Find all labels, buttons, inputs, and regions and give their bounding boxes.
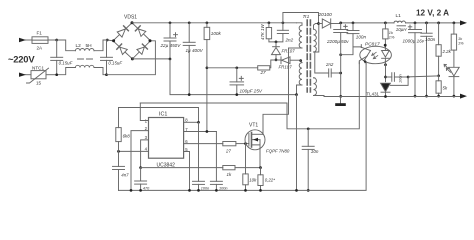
svg-text:12 V, 2 A: 12 V, 2 A xyxy=(416,8,449,17)
node 100n cs ground xyxy=(215,189,218,192)
svg-text:0.15uF: 0.15uF xyxy=(59,60,73,65)
node 100n post top xyxy=(425,22,428,25)
capacitor 100uF 25V xyxy=(230,68,244,95)
svg-text:1k: 1k xyxy=(227,172,232,177)
wire drain to primary xyxy=(263,48,289,134)
wire L2 top link xyxy=(57,40,76,51)
capacitor 0.15uF right xyxy=(101,40,113,75)
capacitor 100n Vcc bypass xyxy=(210,132,222,191)
node divider ground xyxy=(437,95,440,98)
svg-text:100n: 100n xyxy=(425,37,436,42)
wire pin3 CS xyxy=(141,140,149,168)
svg-text:10k: 10k xyxy=(249,178,257,183)
svg-text:6k8: 6k8 xyxy=(123,134,131,139)
wire HV top rail xyxy=(132,22,297,24)
node 47K top xyxy=(268,21,271,24)
node clamp-aux xyxy=(275,59,278,62)
svg-text:47K 1W: 47K 1W xyxy=(260,24,265,40)
wire primary ground rail xyxy=(170,59,297,95)
svg-text:NTC1: NTC1 xyxy=(32,66,44,71)
svg-text:2n2: 2n2 xyxy=(325,62,334,67)
bridge diode lower-right xyxy=(137,44,148,54)
node junction bottom-left xyxy=(55,73,58,76)
wire LED cathode to TL431 xyxy=(384,64,386,82)
PC817 internal LED xyxy=(382,47,390,64)
wire TL431 ref xyxy=(391,76,439,86)
node junction top-left xyxy=(55,39,58,42)
bridge rectifier VDS1 xyxy=(113,23,151,59)
resistor 2.2k divider upper xyxy=(436,23,441,76)
wire pin1 COMP xyxy=(140,103,148,121)
PC817 internal phototransistor xyxy=(359,47,370,64)
node LED branch top xyxy=(453,22,456,25)
svg-text:IC1: IC1 xyxy=(159,111,167,117)
node aux ground xyxy=(295,93,298,96)
svg-text:1%: 1% xyxy=(458,40,464,45)
svg-text:2n2: 2n2 xyxy=(285,38,294,43)
node TL431 anode xyxy=(384,95,387,98)
svg-text:FQPF 7N80: FQPF 7N80 xyxy=(266,149,290,154)
node 10n ground xyxy=(307,189,310,192)
LED indicator xyxy=(444,64,459,96)
wire CS line xyxy=(141,167,223,169)
capacitor 100n opto speedup xyxy=(341,23,362,55)
node 100n vref ground xyxy=(197,189,200,192)
node 2200u top xyxy=(339,22,342,25)
bridge diode upper-left xyxy=(117,26,128,37)
capacitor 100n Vref bypass xyxy=(193,122,205,190)
resistor 1k 1% opto LED xyxy=(383,23,388,47)
svg-text:100n: 100n xyxy=(219,186,227,190)
node REF divider xyxy=(437,74,440,77)
wire secondary rail pre-L1 xyxy=(341,22,394,24)
capacitor 470 CS filter xyxy=(135,168,147,191)
resistor 27 aux feed xyxy=(258,60,273,70)
svg-text:TL431: TL431 xyxy=(367,91,380,96)
bridge diode lower-left xyxy=(117,44,128,55)
svg-text:2A: 2A xyxy=(37,46,44,51)
PC817 feedback wire to COMP xyxy=(140,62,359,129)
node pin4 xyxy=(117,150,120,153)
node pin5 ground xyxy=(188,189,191,192)
wire pin4 RT/CT xyxy=(119,150,149,152)
wire bottom to bridge AC right xyxy=(107,41,156,75)
node CS xyxy=(139,166,142,169)
capacitor 10n xyxy=(302,129,314,191)
svg-text:100n: 100n xyxy=(398,74,403,83)
wire secondary rail post-L1 xyxy=(406,22,462,24)
svg-text:FR107: FR107 xyxy=(279,64,293,69)
wire clamp node xyxy=(273,59,282,61)
output plus arrow xyxy=(460,20,467,25)
thermistor NTC1 15 xyxy=(27,68,57,83)
node 100n pre top xyxy=(352,22,355,25)
node 100uF top xyxy=(235,66,238,69)
wire aux top / primary link vertical xyxy=(299,59,302,62)
node snubber mid xyxy=(275,41,278,44)
wire pin2 VFB to ground xyxy=(131,131,149,191)
wire to bridge AC left xyxy=(107,39,113,42)
bridge diode upper-right xyxy=(135,26,145,37)
node 10k ground xyxy=(244,189,247,192)
transistor Q1 VT1 FQPF 7N80 xyxy=(245,130,265,150)
optocoupler PC817 xyxy=(360,46,392,63)
svg-text:2.2k: 2.2k xyxy=(442,49,452,54)
node 100n post ground xyxy=(425,95,428,98)
node divider top xyxy=(437,22,440,25)
capacitor 22u 450V xyxy=(164,23,178,59)
resistor 100k startup xyxy=(204,23,210,132)
PC817 light arrows xyxy=(372,52,378,58)
svg-text:100n: 100n xyxy=(201,186,209,190)
wire source to CS node xyxy=(259,150,261,168)
svg-text:10µH: 10µH xyxy=(396,27,407,32)
svg-text:1000µ 16v: 1000µ 16v xyxy=(403,39,425,44)
node 100k top xyxy=(206,21,209,24)
node 2n2 sec output xyxy=(339,72,342,75)
capacitor 100n output xyxy=(421,23,432,96)
bridge vertex junctions xyxy=(112,21,151,60)
inductor L1 10uH xyxy=(394,21,406,26)
wire pin8 Vref xyxy=(184,121,199,123)
L2 core dashes xyxy=(78,58,93,60)
svg-text:VT1: VT1 xyxy=(249,123,258,129)
node primary gnd bottom xyxy=(295,189,298,192)
wire clamp top loop xyxy=(283,13,319,24)
diode 20100 output rectifier xyxy=(319,19,341,28)
wire Vcc node xyxy=(207,67,258,69)
wire pin7 Vcc xyxy=(184,131,217,133)
resistor 1k 1% LED indicator xyxy=(451,23,456,67)
node 1u ground xyxy=(188,93,191,96)
fuse F1 2A xyxy=(32,37,57,44)
node junction cap2 bottom xyxy=(105,73,108,76)
svg-text:L1: L1 xyxy=(396,13,402,19)
node 100n to 2200u xyxy=(339,53,342,56)
node 0.22 ground xyxy=(259,189,262,192)
svg-text:4n7: 4n7 xyxy=(121,172,129,177)
capacitor 2n2 xyxy=(276,23,289,42)
svg-text:100µF 25V: 100µF 25V xyxy=(240,89,263,94)
wire primary ground to bottom rail xyxy=(296,95,298,191)
wire secondary ground line xyxy=(324,96,461,98)
inductor L2 bottom winding xyxy=(57,65,107,74)
capacitor 2n2 secondary snubber xyxy=(315,52,341,77)
node junction cap2 top xyxy=(106,39,109,42)
resistor 5k divider lower xyxy=(436,76,441,96)
PC817 collector pin xyxy=(360,45,362,48)
node LED ground xyxy=(453,95,456,98)
transformer aux winding xyxy=(297,61,303,95)
TL431 shunt regulator xyxy=(381,83,391,96)
svg-text:0,22*: 0,22* xyxy=(265,178,276,183)
transformer secondary winding 1 xyxy=(314,24,319,53)
capacitor 0.15uF left xyxy=(51,40,63,75)
svg-text:0.15uF: 0.15uF xyxy=(108,60,122,65)
node 2n2 top xyxy=(282,21,285,24)
svg-text:F1: F1 xyxy=(37,31,43,36)
svg-text:~220V: ~220V xyxy=(8,54,35,65)
capacitor 4n7 xyxy=(113,151,125,190)
node 1000u top xyxy=(414,22,417,25)
inductor L2 5H top winding xyxy=(75,40,107,51)
wire pin6 OUT gate drive xyxy=(184,143,223,145)
diode FR107 aux rectifier xyxy=(281,57,301,64)
svg-text:1%: 1% xyxy=(389,34,395,39)
resistor 47K 1W xyxy=(266,23,276,42)
wire Vref loop top xyxy=(119,108,199,123)
resistor 10k gate pulldown xyxy=(243,144,248,191)
capacitor 2200u 50v xyxy=(334,23,348,97)
node anode-cap xyxy=(384,76,387,79)
svg-text:27: 27 xyxy=(225,148,231,153)
input terminal arrow top xyxy=(19,38,32,42)
svg-text:Tr1: Tr1 xyxy=(303,14,310,20)
node 22u bottom xyxy=(169,58,172,61)
node pin2 ground xyxy=(130,189,133,192)
resistor 27 gate xyxy=(223,142,249,146)
node PC817 anode pin xyxy=(384,44,387,47)
node 22u top xyxy=(169,21,172,24)
node 1000u ground xyxy=(414,95,417,98)
svg-text:470: 470 xyxy=(143,186,150,190)
node LED cathode xyxy=(384,63,387,66)
transformer core xyxy=(307,20,310,92)
resistor 6k8 xyxy=(116,108,121,152)
node REF-cap xyxy=(407,76,410,79)
capacitor 100n TL431 comp xyxy=(386,73,409,82)
node 2200u ground + ground symbol xyxy=(335,95,346,106)
svg-text:20100: 20100 xyxy=(318,12,333,18)
transformer secondary winding 2 xyxy=(314,78,325,97)
svg-text:15: 15 xyxy=(36,81,42,86)
node pin7 xyxy=(206,130,209,133)
node LED resistor top xyxy=(384,22,387,25)
capacitor 1000u 16v xyxy=(408,23,421,96)
resistor 0.22 source sense xyxy=(258,168,263,191)
node 100uF ground xyxy=(235,93,238,96)
svg-text:1µ 400V: 1µ 400V xyxy=(186,48,204,53)
node 10n top xyxy=(307,127,310,130)
node secondary top xyxy=(317,22,320,25)
node Vcc top xyxy=(206,66,209,69)
node 470 ground xyxy=(139,189,142,192)
node 1u top xyxy=(188,21,191,24)
wire pin5 GND xyxy=(184,152,190,191)
svg-text:2200µ 50v: 2200µ 50v xyxy=(326,39,349,44)
svg-text:VDS1: VDS1 xyxy=(124,15,137,21)
node gate xyxy=(244,142,247,145)
PC817 emitter wire to primary ground xyxy=(119,64,367,191)
node source xyxy=(259,166,262,169)
svg-text:5k: 5k xyxy=(443,86,448,91)
svg-text:27: 27 xyxy=(260,70,267,75)
svg-text:5H: 5H xyxy=(86,43,93,49)
wire bridge minus xyxy=(132,58,170,60)
resistor 1k CS xyxy=(223,166,261,170)
svg-text:100n: 100n xyxy=(356,34,367,39)
svg-text:L2: L2 xyxy=(76,43,82,49)
output minus arrow xyxy=(460,94,467,99)
op-amp U1 IC1 UC3842 body xyxy=(149,118,184,159)
pin numbers left 1-4 xyxy=(145,118,148,151)
transformer primary winding xyxy=(289,23,303,48)
diode FR107 clamp xyxy=(272,42,281,60)
svg-text:PC817: PC817 xyxy=(365,41,380,47)
node pin8 xyxy=(197,121,200,124)
input terminal arrow bottom xyxy=(19,73,31,77)
svg-text:100k: 100k xyxy=(211,31,222,36)
svg-text:10n: 10n xyxy=(311,149,319,154)
svg-text:22µ 450V: 22µ 450V xyxy=(160,43,182,48)
capacitor 1u 400V xyxy=(183,23,195,95)
pin numbers right 8-5 xyxy=(185,118,188,152)
